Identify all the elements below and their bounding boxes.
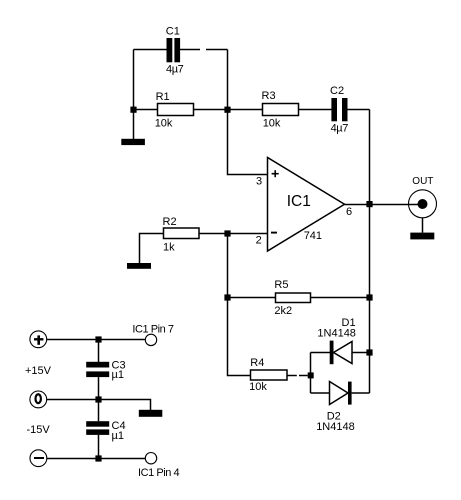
node J (0 rail junction): [95, 396, 101, 402]
svg-text:741: 741: [304, 230, 322, 242]
wire C3 to 0 rail: [98, 377, 100, 399]
wire R2 right: [199, 233, 228, 235]
resistor R2: [164, 228, 200, 239]
svg-text:OUT: OUT: [412, 176, 433, 187]
svg-text:2: 2: [256, 234, 262, 246]
wire diode branch vertical: [310, 353, 312, 394]
wire R5 right: [311, 297, 370, 299]
capacitor C3: [86, 362, 109, 377]
wire + rail down to C3: [98, 340, 100, 363]
wire C1 left vertical: [133, 50, 135, 110]
diode D1: [330, 341, 352, 365]
svg-text:10k: 10k: [155, 118, 173, 130]
wire R2 ground riser and left lead: [140, 234, 164, 264]
wire OUT terminal to ground: [422, 218, 424, 233]
wire mid vertical node C to R5 node: [227, 234, 229, 298]
capacitor C1: [167, 38, 181, 62]
svg-text:-15V: -15V: [27, 424, 51, 436]
wire output (apex to node D): [345, 204, 370, 206]
resistor R4: [251, 370, 288, 380]
wire C1 top-left horizontal: [134, 49, 168, 51]
svg-text:10k: 10k: [249, 381, 267, 393]
wire C4 to -15 rail: [98, 435, 100, 459]
wire 0 rail down to C4: [98, 400, 100, 422]
svg-text:IC1 Pin 7: IC1 Pin 7: [132, 323, 174, 335]
ground (below OUT terminal): [410, 233, 434, 240]
wire pin2: [228, 233, 268, 235]
wire D2 left: [311, 392, 330, 394]
wire right vertical output node to node F: [369, 205, 371, 298]
wire R1 right: [194, 109, 228, 111]
capacitor C4: [86, 421, 109, 435]
ground (below node A): [121, 139, 145, 145]
terminal plus supply: [30, 331, 47, 348]
svg-text:C2: C2: [330, 85, 344, 97]
svg-text:2k2: 2k2: [274, 305, 292, 317]
node I (+ rail junction): [95, 336, 101, 342]
capacitor C2: [331, 98, 347, 121]
svg-text:C1: C1: [166, 25, 180, 37]
svg-text:IC1: IC1: [287, 193, 311, 210]
wire D1 left: [311, 352, 331, 354]
terminal IC1 Pin 7: [145, 334, 156, 345]
wire R3 to C2: [299, 109, 332, 111]
node E (R5 left junction): [224, 294, 230, 300]
wire right vertical node F to D1 node: [369, 298, 371, 353]
node D (output junction): [366, 201, 372, 207]
wire 0V rail: [47, 400, 151, 411]
wire R4 right (dashed break): [287, 375, 308, 377]
wire R3 left: [228, 109, 263, 111]
resistor R3: [263, 104, 299, 116]
svg-text:6: 6: [346, 206, 352, 218]
wire D2 right: [352, 392, 370, 394]
svg-text:R1: R1: [156, 91, 170, 103]
terminal 0 supply: [30, 391, 47, 408]
node G (diode branch junction, square): [308, 372, 314, 378]
node A (C1/R1/ground junction): [130, 107, 136, 113]
op-amp U1 triangle: [268, 158, 345, 252]
wire pin3 (node B down and right to op-amp +): [228, 110, 268, 175]
wire -15V rail: [47, 458, 146, 460]
wire D1 right: [352, 352, 370, 354]
svg-text:R5: R5: [274, 279, 288, 291]
svg-text:+15V: +15V: [25, 365, 52, 377]
ground (0V rail): [139, 410, 163, 417]
svg-text:R4: R4: [250, 357, 264, 369]
OUT terminal connector: [409, 190, 437, 218]
diode D2: [330, 382, 352, 405]
svg-text:R2: R2: [163, 216, 177, 228]
resistor R1: [158, 104, 194, 116]
svg-text:4µ7: 4µ7: [166, 64, 184, 76]
svg-text:IC1 Pin 4: IC1 Pin 4: [138, 467, 180, 479]
svg-text:4µ7: 4µ7: [331, 123, 349, 135]
wire node A to ground: [133, 110, 135, 140]
node H (D1 right junction): [366, 349, 372, 355]
wire R1 left: [134, 109, 158, 111]
svg-text:3: 3: [256, 176, 262, 188]
ground (below R2 source): [127, 263, 151, 269]
svg-text:1k: 1k: [163, 241, 175, 253]
resistor R5: [276, 293, 311, 303]
svg-text:µ1: µ1: [112, 430, 124, 442]
wire C1 right vertical down to node B: [227, 50, 229, 110]
terminal IC1 Pin 4: [145, 453, 156, 464]
wire C2 right: [348, 109, 370, 111]
wire C1 right horizontal (with small break): [180, 49, 228, 51]
node B (R1/R3 junction): [224, 107, 230, 113]
svg-text:R3: R3: [262, 90, 276, 102]
op-amp minus input mark: [271, 232, 277, 234]
wire right vertical D1 node to D2 corner: [369, 353, 371, 394]
terminal minus supply: [30, 450, 47, 467]
wire mid vertical node E down to R4 lead: [228, 298, 251, 376]
wire output node to OUT terminal: [370, 204, 422, 206]
svg-text:1N4148: 1N4148: [317, 327, 356, 339]
op-amp plus input mark: [272, 170, 279, 177]
svg-text:1N4148: 1N4148: [316, 421, 355, 433]
node K (- rail junction): [95, 455, 101, 461]
svg-text:10k: 10k: [263, 118, 281, 130]
wire R5 left: [228, 297, 276, 299]
node C (inverting input junction): [224, 230, 230, 236]
node F (R5 right junction): [366, 294, 372, 300]
wire right vertical C2 to output node: [369, 110, 371, 205]
wire +15V rail: [47, 339, 146, 341]
svg-text:µ1: µ1: [112, 369, 124, 381]
